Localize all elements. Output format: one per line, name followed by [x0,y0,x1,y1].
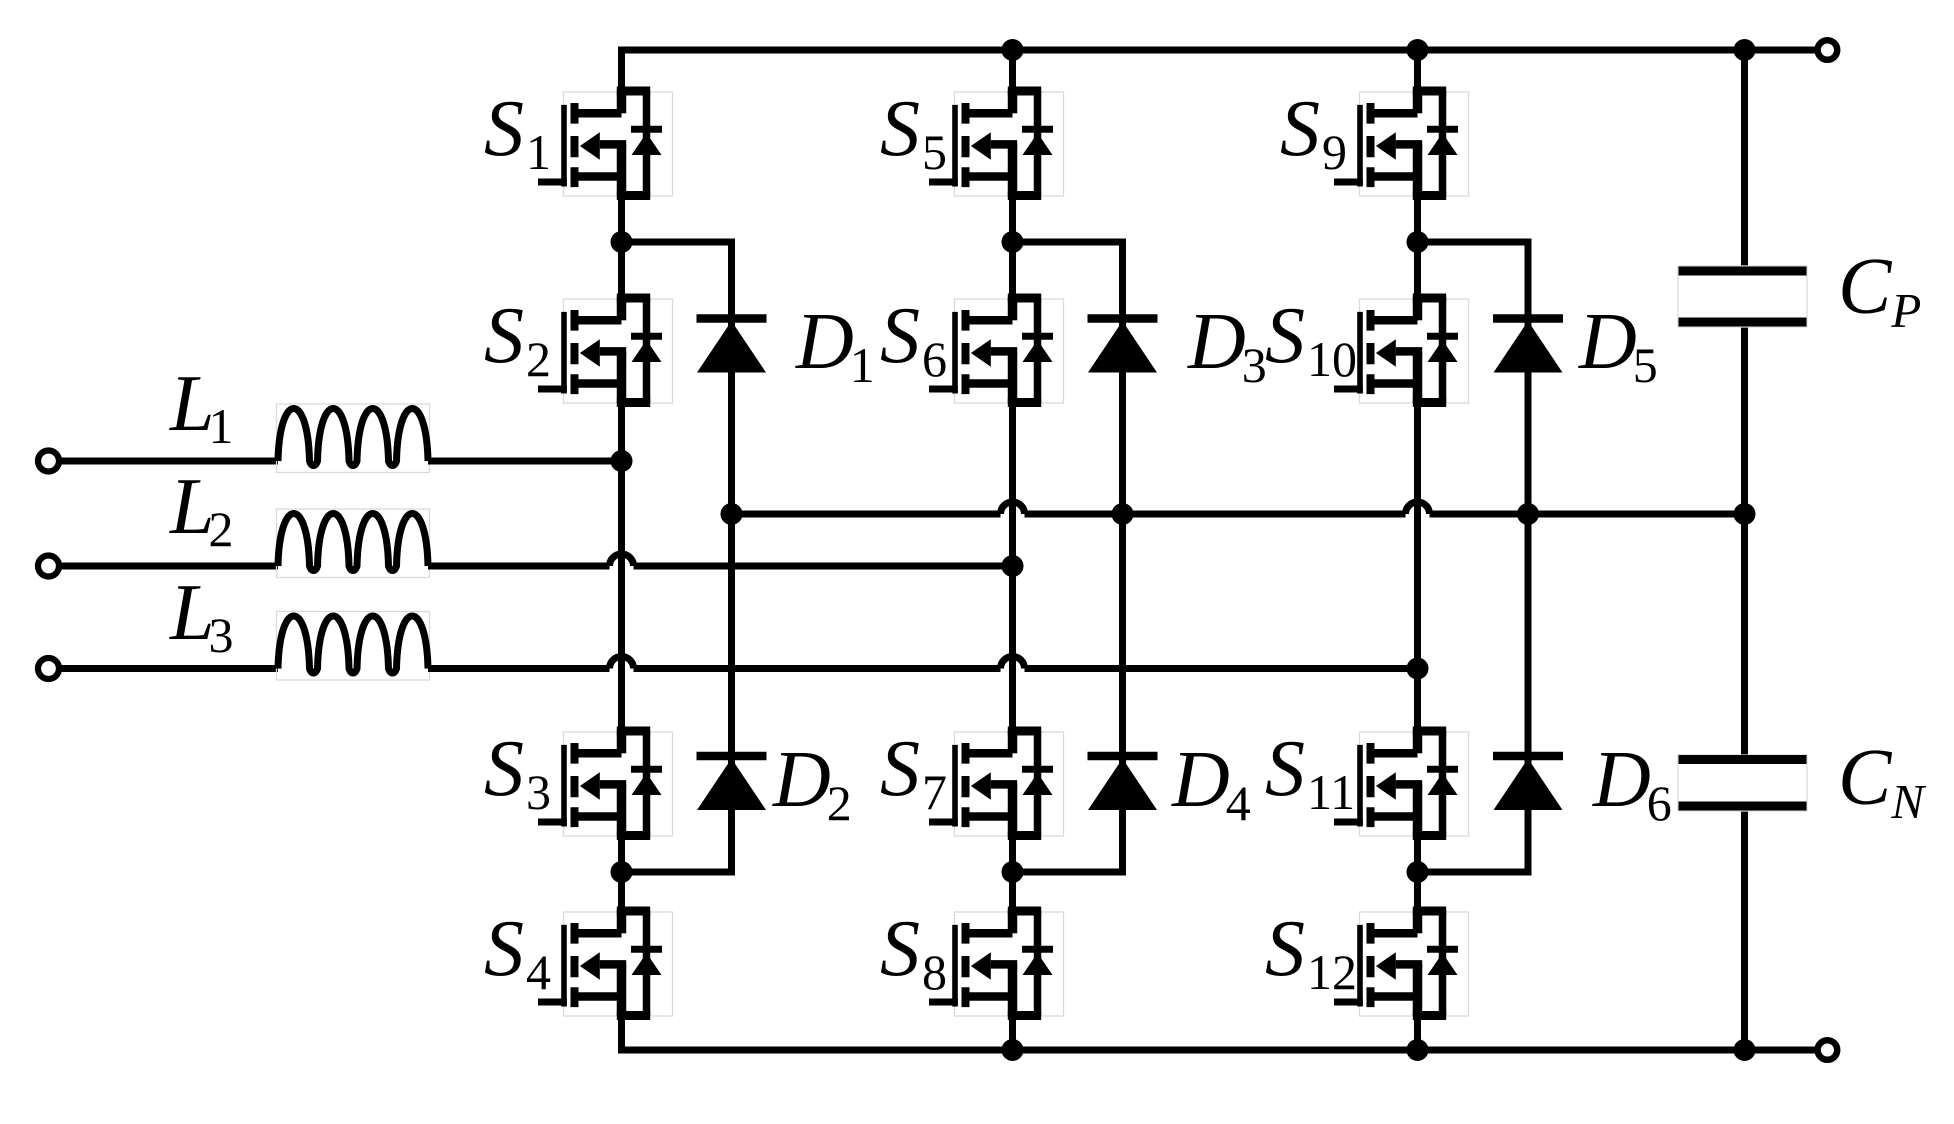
svg-text:S8: S8 [880,905,947,1000]
node: top bus / leg2 junction [1002,39,1024,61]
wire: bottom DC bus [618,1047,1815,1054]
transistor S9 [1334,90,1469,196]
node: top bus / leg3 junction [1407,39,1429,61]
wire: top DC bus [618,47,1815,54]
svg-text:D4: D4 [1171,736,1251,831]
svg-text:L1: L1 [169,360,234,454]
wire: phase A input to L1 [59,458,278,465]
node: phase A / leg1 junction [611,450,633,472]
svg-text:L2: L2 [169,463,234,557]
transistor S3 [538,730,673,836]
wire: D3 branch vertical (tap to midpoint bus) [1119,239,1126,515]
wire: leg3 lower tap to D6 branch [1418,869,1532,876]
terminal: DC- output (open circle) [1818,1040,1838,1060]
capacitor CP box [1678,266,1807,327]
wire: D4 branch vertical (midpoint bus to lower tap) [1119,514,1126,876]
wire: D5 branch vertical (tap to midpoint bus) [1525,239,1532,515]
svg-text:D3: D3 [1187,298,1267,393]
wire: midpoint bus with hops over leg2 and leg3 [732,502,1745,514]
node: phase B / leg2 junction [1002,555,1024,577]
svg-text:S12: S12 [1265,905,1357,1000]
svg-text:S4: S4 [484,905,551,1000]
svg-text:CN: CN [1838,734,1926,829]
svg-text:S11: S11 [1265,725,1355,820]
diode D4 [1088,756,1158,810]
inductor L3 [277,612,430,681]
capacitor CN box [1678,755,1807,811]
transistor S8 [929,910,1064,1016]
transistor S11 [1334,730,1469,836]
transistor S7 [929,730,1064,836]
wire: L3 to leg3 with hops over leg1 and leg2 [428,657,1418,669]
diode D2 [697,756,767,810]
wire: phase B input to L2 [59,563,278,570]
svg-text:S1: S1 [484,85,551,180]
transistor S2 [538,297,673,403]
wire: D6 branch vertical (midpoint bus to lower tap) [1525,514,1532,876]
terminal: DC+ output (open circle) [1818,40,1838,60]
node: leg3 upper tap [1407,231,1429,253]
diode D1 [697,319,767,373]
wire: D2 branch vertical (midpoint bus to lower tap) [728,514,735,876]
svg-text:D5: D5 [1578,298,1658,393]
transistor S12 [1334,910,1469,1016]
node: midpoint bus / D1-D2 branch [721,503,743,525]
svg-text:S5: S5 [880,85,947,180]
node: leg2 upper tap [1002,231,1024,253]
svg-text:S10: S10 [1265,292,1357,387]
node: top bus / capacitor branch junction [1734,39,1756,61]
node: phase C / leg3 junction [1407,658,1429,680]
node: bottom bus / leg3 junction [1407,1039,1429,1061]
svg-text:CP: CP [1838,243,1921,338]
svg-text:S6: S6 [880,292,947,387]
wire: leg1 lower tap to D2 branch [622,869,736,876]
wire: leg3 vertical segments [1414,47,1421,1050]
node: midpoint bus / D5-D6 branch [1517,503,1539,525]
wire: leg2 upper tap to D3 branch [1013,239,1123,246]
node: leg2 lower tap [1002,861,1024,883]
terminal: phase C input (open circle) [38,658,59,679]
node: bottom bus / capacitor branch junction [1734,1039,1756,1061]
node: leg3 lower tap [1407,861,1429,883]
wire: L2 to leg2 with hop over leg1 [428,554,1013,566]
svg-text:D2: D2 [772,736,852,831]
wire: leg1 upper tap to D1 branch [622,239,732,246]
wire: phase C input to L3 [59,665,278,672]
terminal: phase B input (open circle) [38,556,59,577]
capacitor CP [1679,271,1807,322]
node: midpoint bus / D3-D4 branch [1112,503,1134,525]
diode D3 [1088,319,1158,373]
svg-text:L3: L3 [169,569,234,663]
wire: leg3 upper tap to D5 branch [1418,239,1529,246]
wire: D1 branch vertical (tap to midpoint bus) [728,239,735,515]
svg-text:D1: D1 [795,298,875,393]
node: leg1 upper tap [611,231,633,253]
terminal: phase A input (open circle) [38,451,59,472]
wire: leg2 lower tap to D4 branch [1013,869,1127,876]
transistor S10 [1334,297,1469,403]
transistor S1 [538,90,673,196]
svg-text:S7: S7 [880,725,947,820]
wire: L1 to leg1 phase node [428,458,622,465]
svg-text:S9: S9 [1280,85,1347,180]
node: bottom bus / leg2 junction [1002,1039,1024,1061]
svg-text:S3: S3 [484,725,551,820]
svg-text:D6: D6 [1592,736,1672,831]
capacitor CN [1679,760,1807,807]
transistor S4 [538,910,673,1016]
inductor L1 [277,404,430,473]
diode D5 [1493,319,1563,373]
node: leg1 lower tap [611,861,633,883]
wire: leg2 vertical segments [1009,47,1016,1050]
transistor S5 [929,90,1064,196]
inductor L2 [277,509,430,578]
wire: leg1 vertical segments [618,47,625,1050]
diode D6 [1493,756,1563,810]
transistor S6 [929,297,1064,403]
wire: capacitor branch vertical segments [1741,47,1748,1050]
node: midpoint bus / capacitor midpoint [1734,503,1756,525]
svg-text:S2: S2 [484,292,551,387]
